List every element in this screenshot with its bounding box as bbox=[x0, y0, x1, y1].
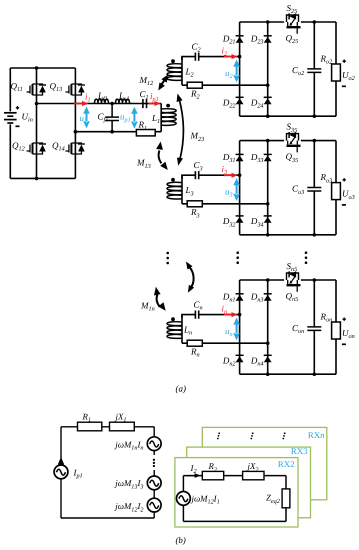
svg-text:RXn: RXn bbox=[308, 430, 325, 440]
svg-text:RX3: RX3 bbox=[291, 446, 308, 456]
svg-text:(a): (a) bbox=[176, 384, 187, 394]
svg-text:(b): (b) bbox=[176, 535, 186, 545]
svg-text:RX2: RX2 bbox=[278, 459, 295, 469]
